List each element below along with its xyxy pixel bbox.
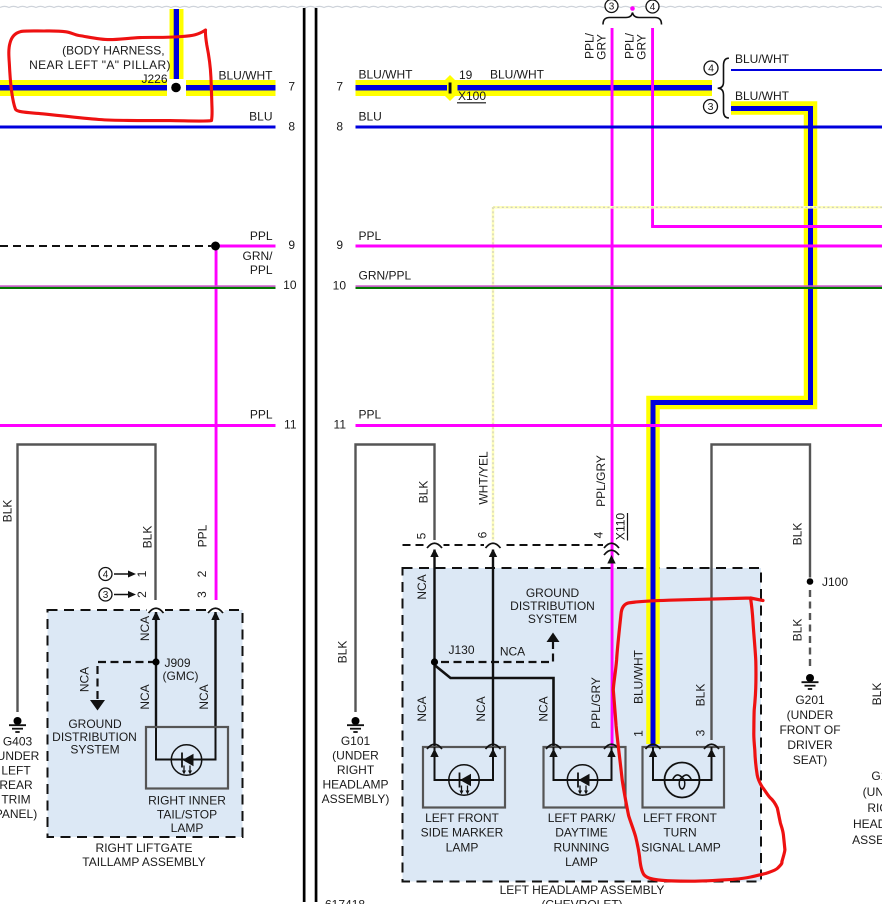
- svg-text:PPL: PPL: [250, 408, 273, 422]
- svg-text:11: 11: [284, 418, 297, 432]
- svg-text:J226: J226: [141, 72, 167, 86]
- svg-text:G102: G102: [871, 769, 882, 783]
- svg-text:SYSTEM: SYSTEM: [528, 612, 577, 626]
- svg-text:RIGHT LIFTGATE: RIGHT LIFTGATE: [96, 841, 193, 855]
- svg-text:NCA: NCA: [197, 684, 211, 709]
- svg-text:(BODY HARNESS,: (BODY HARNESS,: [62, 44, 164, 58]
- svg-text:BLU/WHT: BLU/WHT: [735, 89, 790, 103]
- svg-text:GRY: GRY: [635, 34, 649, 60]
- svg-text:DRIVER: DRIVER: [787, 738, 833, 752]
- svg-text:NEAR LEFT "A" PILLAR): NEAR LEFT "A" PILLAR): [29, 58, 171, 72]
- svg-text:8: 8: [288, 120, 295, 134]
- svg-text:6: 6: [476, 531, 490, 538]
- svg-text:BLK: BLK: [417, 481, 431, 504]
- svg-text:4: 4: [592, 531, 606, 538]
- svg-text:LEFT HEADLAMP ASSEMBLY: LEFT HEADLAMP ASSEMBLY: [500, 883, 665, 897]
- svg-text:WHT/YEL: WHT/YEL: [477, 451, 491, 505]
- svg-text:(UNDER: (UNDER: [787, 708, 834, 722]
- svg-text:BLU/WHT: BLU/WHT: [219, 69, 274, 83]
- svg-text:11: 11: [334, 418, 347, 432]
- svg-text:SIDE MARKER: SIDE MARKER: [421, 826, 504, 840]
- svg-text:2: 2: [195, 570, 209, 577]
- svg-text:BLU/WHT: BLU/WHT: [359, 68, 414, 82]
- svg-text:TAIL/STOP: TAIL/STOP: [157, 808, 217, 822]
- svg-text:BLK: BLK: [141, 526, 155, 549]
- svg-text:NCA: NCA: [415, 574, 429, 599]
- svg-text:RIGHT INNER: RIGHT INNER: [148, 794, 226, 808]
- svg-text:GRN/: GRN/: [243, 249, 274, 263]
- svg-text:FRONT OF: FRONT OF: [779, 723, 840, 737]
- svg-text:2: 2: [135, 591, 149, 598]
- svg-text:PPL: PPL: [359, 229, 382, 243]
- svg-text:LEFT FRONT: LEFT FRONT: [643, 811, 717, 825]
- svg-text:4: 4: [103, 570, 109, 581]
- svg-text:BLK: BLK: [336, 641, 350, 664]
- svg-text:G201: G201: [795, 693, 825, 707]
- svg-text:LEFT: LEFT: [1, 764, 31, 778]
- svg-text:(UNDER: (UNDER: [863, 785, 882, 799]
- svg-text:GROUND: GROUND: [68, 717, 122, 731]
- svg-text:7: 7: [336, 80, 343, 94]
- svg-text:BLU/WHT: BLU/WHT: [735, 52, 790, 66]
- svg-text:HEADLAMP: HEADLAMP: [853, 817, 882, 831]
- svg-text:SYSTEM: SYSTEM: [70, 743, 119, 757]
- svg-text:(CHEVROLET): (CHEVROLET): [541, 898, 622, 904]
- svg-text:DISTRIBUTION: DISTRIBUTION: [510, 599, 595, 613]
- svg-text:PPL: PPL: [250, 229, 273, 243]
- svg-text:BLK: BLK: [694, 684, 708, 707]
- svg-text:9: 9: [336, 238, 343, 252]
- svg-text:NCA: NCA: [474, 696, 488, 721]
- svg-text:PPL/GRY: PPL/GRY: [594, 455, 608, 507]
- svg-text:LAMP: LAMP: [565, 855, 598, 869]
- svg-text:G101: G101: [341, 734, 371, 748]
- svg-text:BLU/WHT: BLU/WHT: [632, 649, 646, 704]
- svg-text:3: 3: [195, 591, 209, 598]
- svg-text:(GMC): (GMC): [163, 669, 199, 683]
- svg-text:BLU: BLU: [249, 110, 272, 124]
- svg-text:1: 1: [632, 730, 646, 737]
- svg-text:J100: J100: [822, 575, 848, 589]
- svg-text:GROUND: GROUND: [526, 586, 580, 600]
- svg-text:TURN: TURN: [663, 826, 696, 840]
- svg-text:G403: G403: [3, 735, 33, 749]
- svg-text:SIGNAL LAMP: SIGNAL LAMP: [641, 840, 721, 854]
- svg-text:TAILLAMP ASSEMBLY: TAILLAMP ASSEMBLY: [82, 855, 205, 869]
- svg-text:NCA: NCA: [500, 645, 525, 659]
- svg-text:4: 4: [708, 63, 714, 75]
- svg-text:TRIM: TRIM: [1, 793, 30, 807]
- svg-text:REAR: REAR: [0, 778, 33, 792]
- svg-text:10: 10: [283, 278, 297, 292]
- svg-text:X100: X100: [458, 89, 486, 103]
- svg-text:5: 5: [415, 532, 429, 539]
- svg-text:(UNDER: (UNDER: [332, 749, 379, 763]
- svg-text:PPL: PPL: [359, 408, 382, 422]
- svg-text:SEAT): SEAT): [793, 753, 827, 767]
- svg-text:PPL: PPL: [196, 524, 210, 547]
- svg-text:NCA: NCA: [78, 667, 92, 692]
- svg-text:J130: J130: [449, 643, 475, 657]
- svg-text:BLK: BLK: [791, 619, 805, 642]
- svg-text:PPL: PPL: [250, 263, 273, 277]
- svg-text:RUNNING: RUNNING: [554, 840, 610, 854]
- svg-text:ASSEMBLY): ASSEMBLY): [852, 833, 882, 847]
- svg-text:19: 19: [459, 68, 473, 82]
- svg-text:LEFT FRONT: LEFT FRONT: [425, 811, 499, 825]
- svg-text:3: 3: [609, 2, 615, 13]
- svg-text:(UNDER: (UNDER: [0, 749, 40, 763]
- svg-text:GRN/PPL: GRN/PPL: [359, 269, 412, 283]
- svg-text:PANEL): PANEL): [0, 807, 37, 821]
- svg-text:8: 8: [336, 120, 343, 134]
- svg-text:BLK: BLK: [1, 500, 15, 523]
- svg-text:RIGHT: RIGHT: [867, 801, 882, 815]
- svg-text:7: 7: [288, 80, 295, 94]
- svg-text:J909: J909: [165, 656, 191, 670]
- svg-text:3: 3: [103, 590, 109, 601]
- svg-text:BLK: BLK: [791, 523, 805, 546]
- svg-text:PPL/GRY: PPL/GRY: [589, 677, 603, 729]
- svg-text:617418: 617418: [325, 898, 365, 904]
- svg-text:LEFT PARK/: LEFT PARK/: [548, 811, 616, 825]
- svg-text:LAMP: LAMP: [171, 821, 204, 835]
- svg-text:3: 3: [694, 729, 708, 736]
- svg-text:10: 10: [333, 279, 347, 293]
- svg-text:GRY: GRY: [595, 34, 609, 60]
- svg-text:BLU/WHT: BLU/WHT: [490, 68, 545, 82]
- svg-text:NCA: NCA: [415, 696, 429, 721]
- svg-text:X110: X110: [614, 513, 628, 540]
- svg-text:NCA: NCA: [138, 684, 152, 709]
- svg-text:LAMP: LAMP: [446, 840, 479, 854]
- svg-text:BLU: BLU: [359, 110, 382, 124]
- svg-text:BLK: BLK: [870, 683, 882, 706]
- svg-text:DAYTIME: DAYTIME: [555, 826, 607, 840]
- svg-text:9: 9: [288, 238, 295, 252]
- svg-text:NCA: NCA: [537, 696, 551, 721]
- svg-text:ASSEMBLY): ASSEMBLY): [322, 792, 390, 806]
- svg-text:3: 3: [708, 101, 714, 113]
- svg-text:1: 1: [135, 570, 149, 577]
- svg-text:4: 4: [650, 2, 656, 13]
- svg-text:NCA: NCA: [138, 616, 152, 641]
- svg-text:HEADLAMP: HEADLAMP: [322, 778, 388, 792]
- svg-text:RIGHT: RIGHT: [337, 763, 375, 777]
